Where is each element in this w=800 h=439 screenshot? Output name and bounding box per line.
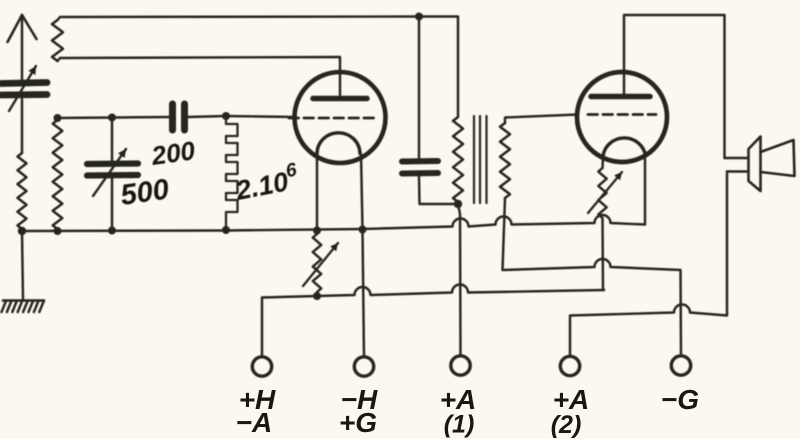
wire secondary top to V2 grid [505, 115, 578, 124]
wire antenna cap to coil [21, 99, 23, 153]
tube V1 filament dome [317, 133, 360, 154]
ground [2, 231, 45, 312]
terminal post +A (1) [451, 356, 470, 375]
wire grid top bus y=117 [58, 117, 170, 118]
wire grid to tube V1 [226, 116, 294, 117]
rheostat R3 V2 filament (with arrow) [588, 156, 622, 218]
wire main bus (grounded) with crossover hops [22, 215, 645, 231]
svg-text:−A: −A [236, 407, 273, 438]
svg-text:200: 200 [149, 135, 198, 171]
tube V1 filament left leg [316, 154, 318, 230]
terminal post +A (2) [560, 356, 579, 375]
wire +A(2) / speaker return line (with hop) [570, 172, 727, 357]
tube V2 anode plate [591, 94, 650, 100]
wire tickler top to node at x=419 [58, 17, 420, 21]
wire terminal -H/+G stub [363, 229, 365, 357]
node rheostat bottom [313, 292, 321, 300]
wire terminal +A(1) stub [458, 204, 461, 356]
variable capacitor C1 (antenna series, trimmer) [1, 66, 47, 111]
node L2 top [54, 114, 62, 122]
svg-text:(2): (2) [551, 411, 582, 439]
node grid leak bottom [222, 226, 230, 234]
resistor R1 grid leak 2.10^6 [226, 116, 238, 230]
terminal post +H / -A [252, 357, 271, 376]
capacitor C4 (across primary) [402, 17, 458, 205]
wire tickler bottom to V1 plate [58, 57, 341, 95]
tube V1 grid (dashed) [289, 117, 374, 120]
node bus/C2 [108, 227, 116, 235]
tube V1 anode plate [313, 96, 367, 102]
rheostat R2 filament (with arrow) [303, 234, 338, 292]
svg-text:2.106: 2.106 [231, 159, 301, 206]
svg-text:+G: +G [339, 407, 377, 438]
node: plate/tickler/cap junction [415, 13, 423, 21]
svg-text:(1): (1) [444, 411, 475, 439]
speaker LS1 [725, 137, 795, 192]
tube V1 envelope [295, 72, 386, 163]
wire rheostat R3 bottom down to filament return [603, 218, 605, 290]
tube V2 filament dome [603, 138, 646, 156]
wire node to transformer primary top [419, 17, 458, 118]
transformer T1 core [474, 116, 487, 203]
tube V2 envelope [577, 72, 667, 162]
node bus/L2 [54, 227, 62, 235]
node filament right / bus [359, 226, 367, 234]
wire secondary bottom to -G (with hop) [503, 198, 682, 356]
wire terminal +H/-A stub [261, 298, 263, 358]
transformer T1 primary [453, 117, 463, 202]
variable capacitor C2 500 (tuning) [87, 118, 138, 231]
wire filament return +H bus (with hops) [262, 285, 604, 298]
tube V2 grid (dashed) [588, 113, 656, 116]
node C2 top tap [108, 114, 116, 122]
tube V2 filament right leg [644, 156, 646, 225]
tube V1 filament right leg [361, 154, 363, 229]
svg-text:−G: −G [661, 384, 699, 415]
coil L1 antenna coil [18, 153, 27, 229]
coil L2 grid tuning coil [53, 120, 63, 229]
node bus/antenna-coil [18, 227, 26, 235]
terminal post -H / +G [354, 357, 373, 376]
node grid leak top [222, 112, 230, 120]
wire V2 plate to speaker [624, 15, 725, 158]
transformer T1 secondary [500, 123, 510, 198]
svg-text:500: 500 [119, 174, 171, 212]
antenna [8, 15, 37, 80]
node primary bottom / C4 / +A1 [454, 200, 462, 208]
capacitor C3 200 (grid capacitor) [173, 104, 227, 130]
coil L3 tickler (feedback) [52, 20, 63, 61]
terminal post -G [671, 356, 690, 375]
node filament left / bus [313, 227, 321, 235]
